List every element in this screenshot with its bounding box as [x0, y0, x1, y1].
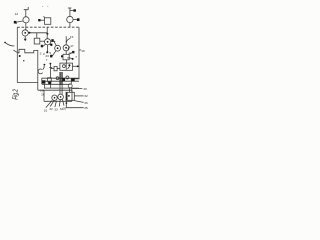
svg-text:23: 23	[45, 54, 49, 58]
svg-text:5: 5	[49, 51, 51, 55]
svg-text:30: 30	[83, 87, 87, 91]
svg-text:35: 35	[63, 106, 67, 110]
svg-text:31: 31	[44, 108, 48, 112]
svg-text:32: 32	[49, 107, 53, 111]
svg-text:35: 35	[84, 106, 88, 110]
svg-text:7: 7	[46, 58, 48, 62]
svg-text:16: 16	[81, 49, 85, 53]
svg-text:36: 36	[84, 101, 88, 105]
svg-text:Fig.2: Fig.2	[11, 89, 20, 100]
svg-text:17: 17	[70, 44, 74, 48]
svg-text:26: 26	[41, 92, 45, 96]
svg-text:33: 33	[54, 108, 58, 112]
svg-text:15: 15	[70, 35, 74, 39]
svg-text:12: 12	[15, 12, 19, 16]
svg-text:7: 7	[75, 55, 77, 59]
svg-text:12: 12	[68, 51, 72, 55]
svg-text:3: 3	[40, 51, 42, 55]
svg-text:32: 32	[84, 94, 88, 98]
